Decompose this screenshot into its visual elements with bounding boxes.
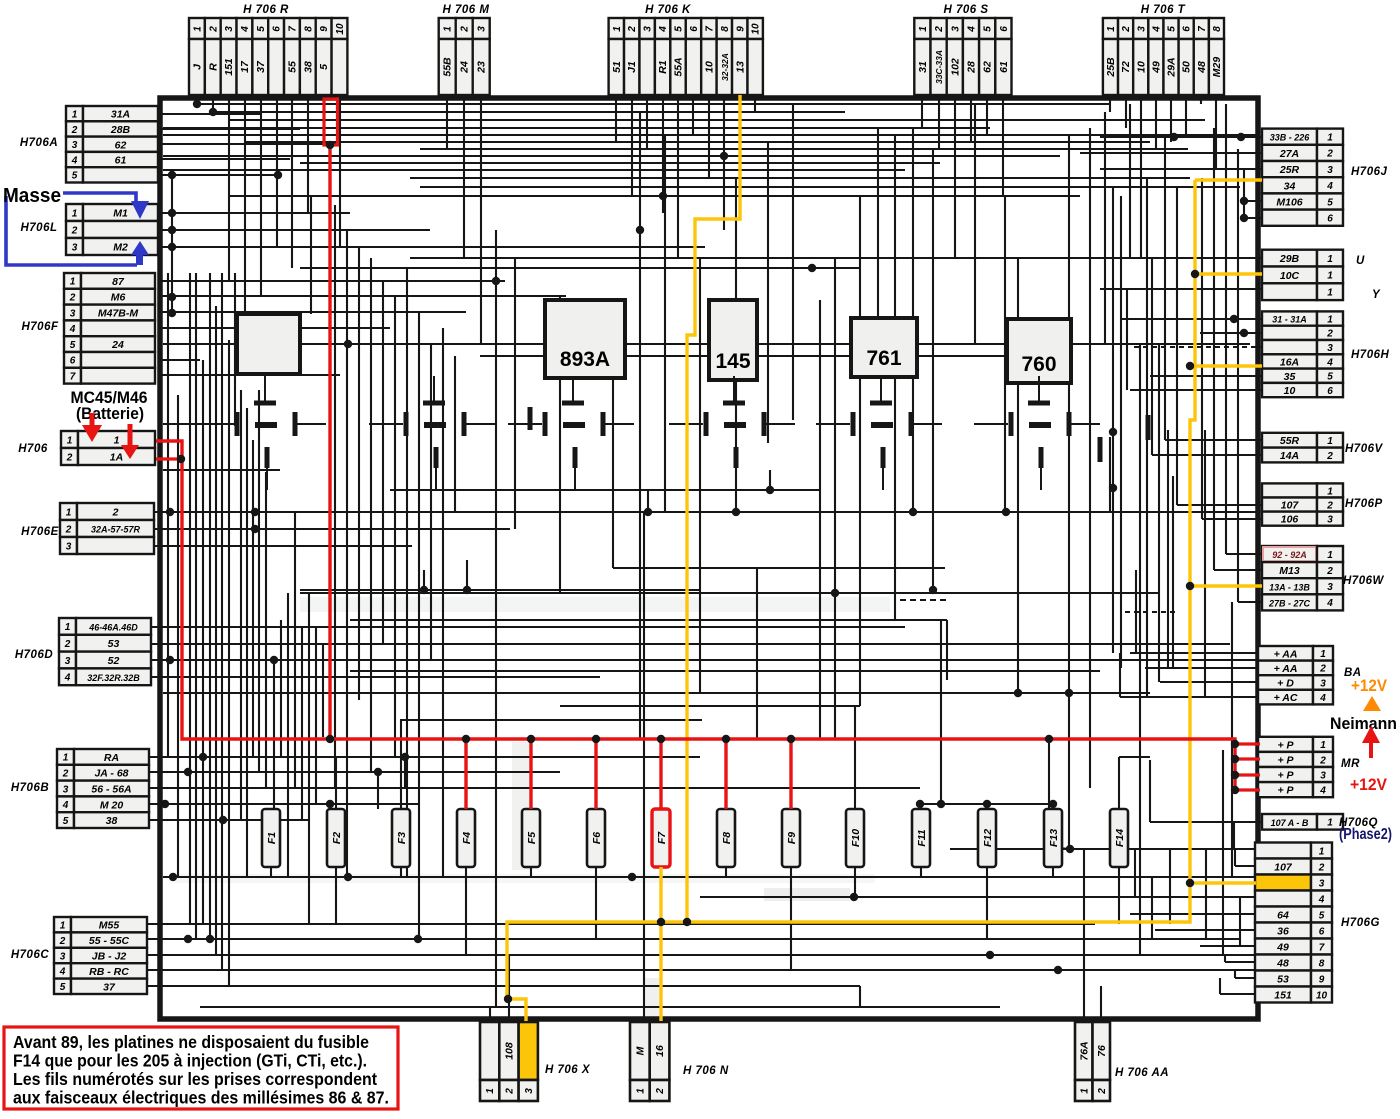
wire — [1225, 104, 1227, 554]
wire — [1200, 945, 1255, 947]
svg-text:31: 31 — [917, 61, 929, 73]
svg-text:4: 4 — [64, 673, 71, 684]
wire — [921, 95, 923, 128]
svg-text:H706H: H706H — [1351, 349, 1389, 361]
wire — [1145, 667, 1258, 669]
fuse F7 — [652, 809, 670, 867]
wire — [158, 311, 466, 313]
svg-text:J1: J1 — [626, 61, 638, 73]
fuse F12 — [978, 809, 996, 867]
wire — [1119, 653, 1121, 697]
svg-text:87: 87 — [112, 276, 125, 288]
svg-text:56 - 56A: 56 - 56A — [91, 784, 131, 796]
svg-text:2: 2 — [1318, 862, 1325, 873]
svg-text:4: 4 — [59, 967, 66, 978]
wire — [155, 528, 510, 530]
svg-text:7: 7 — [1319, 942, 1325, 953]
wire — [404, 757, 406, 788]
red arrow into H706.2 — [128, 424, 133, 446]
wire — [1118, 757, 1120, 809]
fuse F1 — [262, 809, 280, 867]
svg-text:Masse: Masse — [3, 185, 61, 207]
junction — [732, 508, 740, 516]
wire — [1109, 95, 1111, 112]
relay contact symbol K6 — [974, 376, 1100, 490]
junction red bus — [1231, 771, 1239, 779]
wire — [315, 627, 317, 804]
wire — [1226, 553, 1262, 555]
wire — [358, 247, 360, 700]
svg-text:F9: F9 — [786, 832, 798, 844]
fuse F14 — [1110, 809, 1128, 867]
relay contact symbol K2 — [369, 376, 495, 490]
svg-text:F10: F10 — [850, 829, 862, 847]
svg-text:4: 4 — [1319, 785, 1326, 796]
svg-text:2: 2 — [1097, 1088, 1108, 1095]
connector H706L (left) — [20, 204, 158, 255]
junction — [492, 277, 500, 285]
svg-text:4: 4 — [62, 800, 69, 811]
svg-text:M1: M1 — [113, 208, 128, 220]
junction — [720, 152, 728, 160]
wire — [1224, 955, 1226, 962]
svg-text:2: 2 — [1319, 755, 1326, 766]
wire — [228, 340, 230, 986]
junction — [270, 656, 278, 664]
svg-text:H706E: H706E — [21, 526, 59, 538]
junction — [219, 816, 227, 824]
wire — [954, 95, 956, 258]
svg-text:4: 4 — [967, 26, 978, 33]
wire — [163, 155, 1060, 157]
wire — [514, 258, 516, 529]
wire — [560, 705, 860, 707]
wire — [258, 390, 260, 772]
svg-text:1: 1 — [1327, 486, 1333, 497]
junction red bus — [326, 141, 334, 149]
wire — [163, 169, 905, 171]
wire — [212, 95, 214, 112]
wire red fuse feed — [464, 739, 467, 809]
svg-text:F1: F1 — [266, 832, 278, 844]
svg-text:3: 3 — [1320, 678, 1326, 689]
wire — [723, 95, 725, 230]
svg-text:F2: F2 — [331, 832, 343, 844]
wire — [377, 772, 379, 809]
junction — [184, 768, 192, 776]
wire — [209, 273, 211, 939]
svg-text:5: 5 — [1327, 372, 1333, 383]
svg-text:3: 3 — [477, 26, 488, 32]
wire — [158, 128, 300, 130]
svg-text:4: 4 — [1318, 894, 1325, 905]
svg-text:H706A: H706A — [20, 137, 58, 149]
wire — [1100, 288, 1262, 290]
junction — [929, 586, 937, 594]
wire — [643, 512, 645, 1021]
wire — [1052, 867, 1054, 877]
junction — [636, 226, 644, 234]
svg-text:H 706 N: H 706 N — [683, 1065, 729, 1077]
wire — [339, 95, 341, 247]
connector H 706 K (top) — [609, 4, 763, 95]
wire — [792, 104, 794, 420]
svg-text:29A: 29A — [1166, 57, 1178, 77]
svg-text:2: 2 — [64, 639, 71, 650]
svg-text:H706F: H706F — [21, 321, 58, 333]
wire — [152, 626, 905, 628]
wire — [1130, 913, 1255, 915]
junction — [937, 800, 945, 808]
svg-text:14A: 14A — [1280, 450, 1299, 462]
svg-text:2: 2 — [1326, 451, 1333, 462]
svg-text:28: 28 — [966, 61, 978, 74]
connector H 706 N (bottom) — [630, 1022, 729, 1101]
junction — [161, 800, 169, 808]
wire — [228, 95, 230, 281]
junction — [909, 508, 917, 516]
wire — [1048, 739, 1050, 847]
wire yellow B — [507, 180, 1195, 1021]
connector H 706 M (top) — [439, 4, 490, 95]
svg-text:2: 2 — [934, 26, 945, 33]
svg-text:H706D: H706D — [15, 649, 53, 661]
junction — [168, 226, 176, 234]
svg-text:3: 3 — [1327, 582, 1333, 593]
wire — [1235, 865, 1255, 867]
wire — [423, 570, 425, 590]
svg-text:24: 24 — [459, 61, 471, 74]
junction — [556, 340, 564, 348]
wire — [735, 178, 737, 512]
svg-text:2: 2 — [1326, 149, 1333, 160]
wire — [335, 757, 337, 809]
wire — [920, 803, 1053, 805]
wire — [382, 281, 384, 644]
wire — [920, 804, 922, 809]
svg-text:10: 10 — [335, 23, 346, 35]
relay box (blank) — [237, 314, 300, 374]
svg-text:35: 35 — [1284, 371, 1296, 383]
fuse F11 — [912, 809, 930, 867]
junction yellow — [1191, 270, 1199, 278]
wire — [294, 512, 296, 788]
svg-text:5: 5 — [1167, 26, 1178, 32]
wire — [1213, 128, 1215, 570]
svg-text:M47B-M: M47B-M — [98, 308, 139, 320]
svg-text:H706B: H706B — [11, 782, 49, 794]
wire — [152, 643, 1230, 645]
wire — [1119, 756, 1150, 758]
svg-text:25R: 25R — [1279, 164, 1300, 176]
junction red bus — [1231, 740, 1239, 748]
wire — [400, 719, 702, 721]
svg-text:5: 5 — [1319, 910, 1325, 921]
junction — [344, 340, 352, 348]
wire — [1235, 977, 1255, 979]
junction red bus — [592, 735, 600, 743]
wire — [1220, 993, 1255, 995]
svg-text:53: 53 — [108, 638, 120, 650]
wire — [171, 175, 173, 317]
wire red fuse feed — [594, 739, 597, 809]
svg-text:32-32A: 32-32A — [720, 53, 730, 81]
svg-text:1: 1 — [1327, 550, 1333, 561]
junction — [274, 171, 282, 179]
wire — [1129, 104, 1131, 258]
svg-text:+ P: + P — [1277, 754, 1294, 766]
wire blue masse 2 — [6, 196, 137, 265]
svg-text:8: 8 — [1319, 958, 1325, 969]
wire red battery bus — [156, 441, 1235, 790]
wire — [197, 103, 1110, 105]
svg-text:53: 53 — [1277, 974, 1289, 986]
wire — [854, 706, 856, 809]
wire — [1126, 289, 1128, 390]
wire — [1243, 169, 1245, 218]
wire — [158, 359, 200, 361]
wire — [1169, 849, 1171, 924]
wire — [1140, 95, 1142, 258]
wire — [1150, 257, 1262, 259]
relay contact symbol K1 — [163, 376, 326, 490]
junction — [916, 800, 924, 808]
svg-text:Y: Y — [1372, 289, 1381, 301]
svg-text:64: 64 — [1277, 910, 1289, 922]
wire — [1205, 849, 1207, 939]
svg-text:10: 10 — [1135, 61, 1147, 73]
svg-text:9: 9 — [1319, 974, 1325, 985]
wire yellow stub 16A — [1190, 364, 1262, 367]
junction yellow — [1186, 582, 1194, 590]
connector H706E (left) — [21, 503, 154, 554]
svg-text:F3: F3 — [396, 832, 408, 844]
svg-text:Les fils numérotés sur les pri: Les fils numérotés sur les prises corres… — [13, 1069, 377, 1089]
wire — [480, 95, 482, 344]
relay box 893A — [545, 300, 625, 378]
svg-text:5: 5 — [1327, 197, 1333, 208]
svg-text:F5: F5 — [526, 832, 538, 844]
wire — [754, 95, 756, 112]
connector H706P (right) — [1262, 483, 1383, 525]
wire — [148, 985, 860, 987]
wire — [270, 867, 272, 877]
wire — [920, 867, 922, 877]
wire — [612, 344, 614, 568]
svg-text:106: 106 — [1281, 514, 1299, 526]
wire — [1237, 149, 1239, 602]
wire — [1151, 877, 1153, 939]
wire — [1200, 95, 1202, 104]
junction — [168, 171, 176, 179]
svg-text:2: 2 — [504, 1088, 515, 1095]
wire — [334, 205, 336, 788]
svg-text:76: 76 — [1096, 1045, 1108, 1057]
wire — [307, 95, 309, 213]
wire — [859, 986, 861, 1007]
svg-text:H706L: H706L — [20, 222, 57, 234]
svg-text:1: 1 — [1079, 1088, 1090, 1094]
svg-text:F6: F6 — [591, 832, 603, 844]
wire — [986, 804, 988, 809]
wire — [310, 196, 312, 314]
wire — [466, 560, 468, 590]
wire yellow stub 34 — [1195, 178, 1262, 181]
wire — [454, 356, 456, 512]
svg-text:M: M — [634, 1046, 646, 1055]
svg-text:5: 5 — [63, 816, 69, 827]
wire — [699, 258, 701, 693]
svg-text:6: 6 — [1319, 926, 1325, 937]
svg-text:H706: H706 — [18, 443, 48, 455]
connector H 706 X (bottom) — [480, 1022, 591, 1101]
contact bar — [528, 407, 533, 430]
svg-text:2: 2 — [65, 524, 72, 535]
svg-text:108: 108 — [503, 1042, 515, 1060]
wire — [152, 676, 600, 678]
svg-text:31 - 31A: 31 - 31A — [1272, 315, 1307, 325]
fuse F2 — [327, 809, 345, 867]
wire — [1158, 344, 1160, 682]
junction yellow — [504, 995, 512, 1003]
fuse F10 — [846, 809, 864, 867]
junction — [168, 309, 176, 317]
connector H706D (left) — [15, 618, 151, 685]
wire — [291, 95, 293, 268]
junction — [199, 753, 207, 761]
svg-text:+ AA: + AA — [1274, 648, 1298, 660]
wire — [950, 848, 1255, 850]
svg-text:aux faisceaux électriques des: aux faisceaux électriques des millésimes… — [13, 1088, 389, 1108]
junction red bus — [1231, 755, 1239, 763]
wire — [1109, 437, 1111, 512]
svg-text:3: 3 — [65, 656, 71, 667]
wire — [446, 95, 448, 149]
junction — [983, 800, 991, 808]
wire — [167, 273, 169, 757]
svg-text:RB - RC: RB - RC — [89, 966, 129, 978]
wire — [639, 112, 641, 739]
svg-text:6: 6 — [70, 356, 76, 367]
svg-text:6: 6 — [999, 26, 1010, 32]
wire — [986, 95, 988, 135]
wire — [646, 95, 648, 149]
junction — [1240, 214, 1248, 222]
wire red fuse feed — [724, 739, 727, 809]
wire — [938, 95, 940, 149]
svg-text:3: 3 — [1327, 165, 1333, 176]
connector H706C (left) — [11, 917, 147, 994]
wire — [158, 212, 350, 214]
svg-text:55 - 55C: 55 - 55C — [89, 935, 130, 947]
wire — [1233, 822, 1235, 849]
junction — [206, 935, 214, 943]
svg-text:R: R — [207, 63, 219, 71]
wire — [300, 589, 700, 591]
wire — [1049, 847, 1069, 849]
wire yellow A — [687, 95, 740, 922]
wire red stub 1A — [156, 457, 182, 460]
wire — [234, 273, 236, 426]
wire — [894, 135, 896, 620]
svg-text:36: 36 — [1277, 926, 1289, 938]
svg-text:3: 3 — [60, 951, 66, 962]
fuse F3 — [392, 809, 410, 867]
svg-text:29B: 29B — [1279, 253, 1300, 265]
svg-text:H706G: H706G — [1341, 917, 1380, 929]
svg-text:3: 3 — [1327, 343, 1333, 354]
junction — [831, 589, 839, 597]
svg-text:H 706 K: H 706 K — [645, 4, 691, 16]
svg-text:10: 10 — [1284, 385, 1296, 397]
junction red bus — [722, 735, 730, 743]
wire red fuse feed — [529, 739, 532, 809]
junction red bus — [1045, 735, 1053, 743]
junction yellow — [1186, 879, 1194, 887]
svg-text:3: 3 — [950, 26, 961, 32]
connector H 706 AA (bottom) — [1075, 1022, 1169, 1101]
wire — [394, 296, 396, 757]
wire — [1130, 389, 1262, 391]
wire — [410, 257, 1160, 259]
wire — [430, 344, 432, 660]
junction — [1237, 133, 1245, 141]
wire dashed — [900, 599, 947, 601]
svg-text:24: 24 — [111, 339, 124, 351]
junction — [1066, 845, 1074, 853]
junction — [1014, 689, 1022, 697]
svg-text:1: 1 — [72, 208, 78, 219]
red arrow into H706.1 — [90, 413, 95, 426]
svg-text:10: 10 — [703, 61, 715, 73]
relay box 145 — [709, 300, 757, 380]
connector MR (right) — [1258, 737, 1360, 797]
fuse F6 — [587, 809, 605, 867]
svg-text:3: 3 — [224, 26, 235, 32]
wire — [390, 489, 820, 491]
wire — [1234, 849, 1236, 866]
wire — [1130, 652, 1258, 654]
svg-text:37: 37 — [103, 981, 116, 993]
wire — [276, 95, 278, 247]
wire — [819, 300, 821, 739]
svg-text:151: 151 — [223, 58, 235, 76]
svg-text:M 20: M 20 — [100, 799, 124, 811]
wire — [329, 804, 331, 820]
wire — [647, 490, 649, 512]
svg-text:4: 4 — [1151, 26, 1162, 33]
svg-text:1: 1 — [66, 507, 72, 518]
junction — [166, 508, 174, 516]
svg-text:16A: 16A — [1280, 356, 1299, 368]
wire red +P stub — [1235, 788, 1260, 791]
svg-text:107 A - B: 107 A - B — [1271, 818, 1309, 828]
svg-text:M13: M13 — [1279, 565, 1300, 577]
wire — [970, 95, 972, 142]
junction — [1049, 800, 1057, 808]
wire — [163, 134, 1258, 136]
wire — [300, 267, 860, 269]
wire — [1176, 187, 1178, 505]
svg-text:3: 3 — [66, 541, 72, 552]
svg-text:H 706 X: H 706 X — [545, 1064, 591, 1076]
svg-text:H 706 M: H 706 M — [443, 4, 490, 16]
wire — [1234, 970, 1236, 978]
wire — [1215, 95, 1217, 170]
wire — [1068, 693, 1070, 849]
wire — [221, 273, 223, 970]
wire — [1238, 601, 1262, 603]
